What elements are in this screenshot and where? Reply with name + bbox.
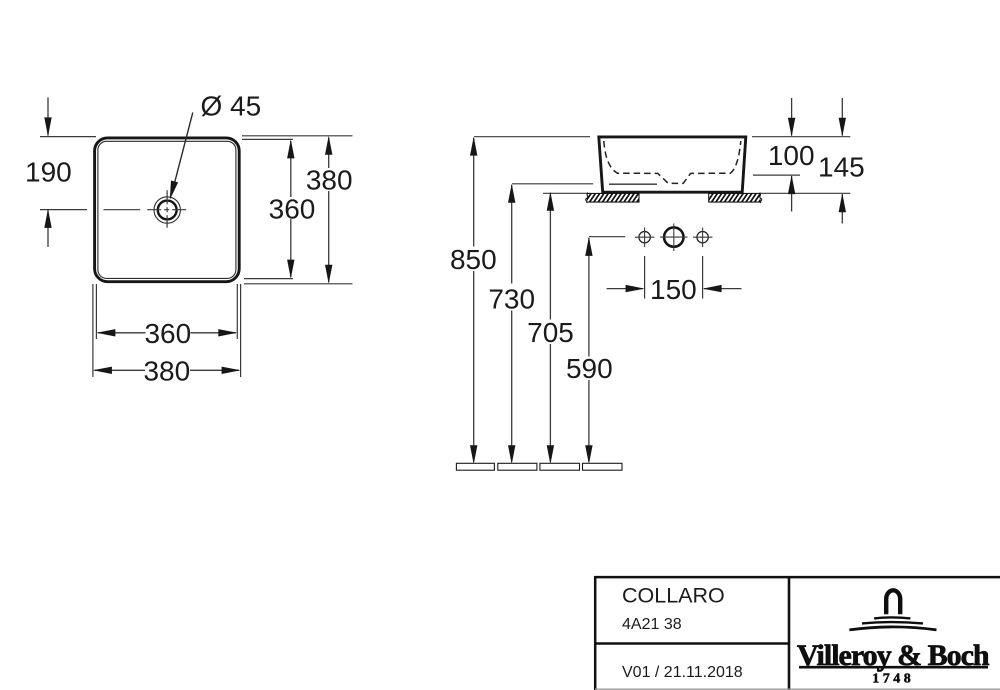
dim 360 right line — [290, 141, 292, 197]
svg-text:380: 380 — [306, 165, 353, 196]
title block horizontal divider — [595, 642, 789, 644]
counter line right segment — [760, 192, 850, 194]
bottom ext line right inner — [236, 284, 238, 339]
title block top border — [594, 576, 1000, 579]
dim 360 bottom line — [98, 332, 146, 334]
basin body — [599, 137, 746, 192]
svg-text:360: 360 — [269, 193, 316, 224]
bottom ext line left inner — [95, 284, 97, 339]
dim 150 right line — [704, 288, 742, 290]
title block vertical divider — [788, 576, 791, 690]
svg-text:4A21 38: 4A21 38 — [622, 616, 682, 633]
dim 190 lower line — [47, 211, 49, 248]
svg-text:590: 590 — [566, 353, 613, 384]
tap hole centerline horizontal across circle — [147, 209, 187, 211]
floor bar 2 — [498, 463, 537, 470]
title block faint bottom line — [595, 688, 1000, 690]
tap hole centerline vertical — [166, 190, 168, 228]
leader arrowhead — [166, 180, 178, 200]
svg-text:850: 850 — [450, 244, 497, 275]
tap hole centerline horizontal left dash — [104, 209, 141, 211]
counter hatch pad left — [587, 193, 639, 202]
dim 145 upper line — [841, 98, 843, 136]
bottom ext line right outer — [240, 284, 242, 377]
counter line left segment — [543, 192, 587, 194]
svg-text:150: 150 — [650, 274, 697, 305]
floor bar 1 — [456, 463, 494, 470]
svg-text:COLLARO: COLLARO — [622, 584, 725, 608]
dim 190 upper line — [47, 97, 49, 135]
right ext line 360 bottom — [244, 278, 293, 280]
svg-text:380: 380 — [143, 356, 190, 387]
rim ext line left — [474, 136, 590, 138]
title block left border — [594, 576, 597, 690]
floor bar 4 — [583, 463, 623, 470]
dim 730 line — [511, 185, 513, 284]
svg-text:1748: 1748 — [872, 672, 914, 687]
dim 380 bottom line — [95, 369, 146, 371]
dim 150 left line — [607, 288, 643, 290]
right ext line 380 bottom — [244, 283, 353, 285]
svg-text:100: 100 — [768, 140, 815, 171]
dim 190 lower arrow — [44, 209, 51, 228]
leader line for diameter 45 — [172, 113, 193, 195]
V&B logo ripple 3 — [849, 627, 936, 630]
logo underline — [799, 666, 988, 669]
dim 590 line — [588, 238, 590, 357]
dim 145 lower arrow — [841, 194, 843, 223]
fitting hole center circle — [664, 227, 683, 246]
dim 705 line — [549, 193, 551, 320]
tap hole inner circle — [158, 201, 177, 220]
ext line 590 — [589, 236, 625, 238]
bottom ext line left outer — [92, 284, 94, 377]
dim 380 right arrows — [325, 136, 332, 155]
dim 190 extension line mid — [40, 209, 87, 211]
dim 360 right arrows — [287, 139, 294, 158]
dim 190 extension line top — [40, 136, 96, 138]
svg-text:V01 / 21.11.2018: V01 / 21.11.2018 — [622, 664, 743, 681]
rim ext line right — [752, 136, 850, 138]
svg-text:360: 360 — [144, 318, 191, 349]
dim 360 bottom arrows — [96, 329, 115, 336]
floor bar 3 — [540, 463, 580, 470]
V&B logo ripple 1 — [874, 617, 910, 618]
svg-text:190: 190 — [25, 157, 72, 188]
basin inner rim line — [98, 141, 236, 278]
ext line 730 (left of basin) — [512, 183, 593, 185]
V&B logo arch — [886, 590, 900, 614]
dim 380 right line — [328, 138, 330, 169]
dim 100 upper line — [791, 98, 793, 136]
right ext line 360 top — [242, 138, 293, 140]
counter hatch pad right — [709, 193, 760, 202]
dim 100 lower arrow — [791, 176, 793, 212]
ext line from right hole down — [702, 256, 704, 299]
ext line from left hole down — [644, 256, 646, 299]
dim 380 bottom arrows — [93, 367, 112, 374]
fitting hole right small circle — [697, 232, 708, 243]
bowl hidden contour (dashed) — [604, 141, 741, 183]
tap hole outer circle — [154, 197, 180, 223]
svg-text:Ø 45: Ø 45 — [201, 91, 262, 122]
basin outer outline (rounded square) — [95, 138, 240, 282]
ext line 100 bottom — [753, 174, 800, 176]
svg-text:730: 730 — [488, 284, 535, 315]
inner bottom solid line — [609, 183, 657, 185]
V&B logo ripple 2 — [862, 622, 923, 623]
dim 850 line — [473, 138, 475, 247]
fitting hole left small circle — [639, 232, 650, 243]
dim 190 upper arrow — [44, 117, 51, 136]
svg-text:705: 705 — [527, 317, 574, 348]
right ext line 380 top — [242, 135, 353, 137]
svg-text:145: 145 — [818, 151, 865, 182]
